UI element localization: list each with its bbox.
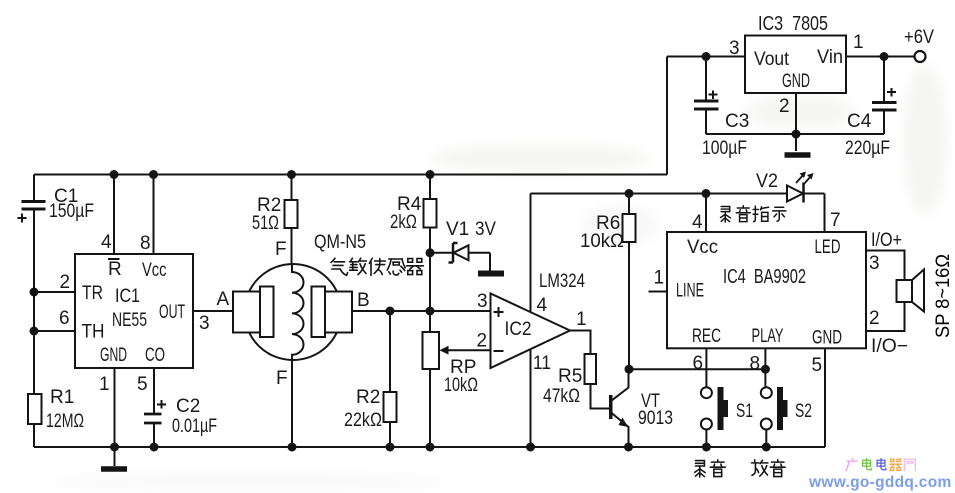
ground symbol under IC3 [785,152,811,158]
svg-text:3: 3 [477,291,488,312]
svg-text:GND: GND [100,345,127,366]
wire top supply rail [34,174,667,176]
wire IC4 pin2 to speaker loop [866,302,905,331]
svg-text:47kΩ: 47kΩ [543,386,580,407]
svg-text:S2: S2 [795,401,812,422]
svg-text:LINE: LINE [676,281,704,302]
speaker SP [897,270,925,312]
svg-text:2: 2 [869,308,880,329]
svg-text:220µF: 220µF [845,138,890,159]
watermark site name [846,459,915,471]
svg-text:5: 5 [812,355,823,376]
svg-text:LM324: LM324 [539,271,585,292]
svg-text:6: 6 [59,308,70,329]
switch S1 [701,387,753,447]
svg-text:0.01µF: 0.01µF [172,416,217,437]
svg-text:Vcc: Vcc [687,237,718,258]
transistor VT 9013 [609,369,673,447]
wire IC1 pin2 [34,291,75,293]
wire bottom ground rail [34,446,825,448]
svg-text:1: 1 [576,309,587,330]
wire IC1 pin5 [153,368,155,413]
svg-text:1: 1 [654,268,665,289]
svg-text:2: 2 [60,272,71,293]
svg-text:100µF: 100µF [702,138,747,159]
zener diode V1 3V [430,243,504,274]
svg-text:8: 8 [750,354,761,375]
svg-text:GND: GND [812,328,842,349]
wire C3-C4 bottom link [706,133,884,135]
gas sensor QM-N5 [233,232,366,389]
label (chinese) gas sensor [331,258,423,275]
op IC4 BA9902 box [667,232,866,348]
wire IC1 pin6 [34,330,75,332]
svg-text:9013: 9013 [638,408,673,429]
svg-text:1: 1 [99,374,110,395]
svg-text:3: 3 [869,253,880,274]
wire IC4 pin4 Vcc [705,194,707,233]
wire 7805 pin1 Vin to +6V [846,56,915,58]
svg-text:V1: V1 [446,219,469,240]
resistor R2 51ohm [252,175,298,266]
svg-text:IC2: IC2 [505,319,532,340]
svg-text:CO: CO [145,345,165,366]
svg-text:R2: R2 [356,387,380,408]
svg-text:TR: TR [82,283,103,304]
resistor R1 [28,387,84,432]
wire 7805 pin3 Vout [667,56,745,58]
svg-text:IC4 BA9902: IC4 BA9902 [723,266,806,288]
wire riser to 7805 output [666,57,668,175]
svg-text:Vcc: Vcc [142,260,167,281]
svg-text:22kΩ: 22kΩ [344,410,382,431]
svg-text:1: 1 [853,32,864,53]
svg-text:2kΩ: 2kΩ [390,212,417,233]
svg-text:4: 4 [692,212,703,233]
IC4 labels [654,210,843,376]
op-amp IC2 LM324 [477,271,587,374]
svg-text:C4: C4 [847,111,872,132]
svg-text:7: 7 [830,210,841,231]
resistor R2 22k [344,311,397,447]
IC1 pin labels [59,232,210,395]
svg-text:R: R [108,259,122,280]
wire sensor bottom to ground rail [291,360,293,447]
svg-text:I/O+: I/O+ [871,230,902,251]
svg-text:SP 8~16Ω: SP 8~16Ω [933,254,954,338]
svg-text:10kΩ: 10kΩ [444,375,478,396]
svg-text:6: 6 [693,353,704,374]
switch S2 [761,387,812,447]
wire IC2 pin11 to ground rail [530,349,532,447]
wire 5V distribution line [531,193,788,195]
wire IC2 output pin1 [570,331,591,355]
wire IC4 pin6 REC [705,348,707,387]
svg-text:5: 5 [137,374,148,395]
capacitor C3 [694,57,719,135]
label (chinese) playback [752,460,786,477]
svg-text:Vin: Vin [817,47,843,68]
wire collector to PLAY pin line [629,368,766,370]
svg-text:F: F [276,368,288,389]
svg-text:8: 8 [140,233,151,254]
svg-text:OUT: OUT [159,302,185,323]
wire node B to op-amp [352,310,491,312]
op IC3 7805 regulator box [745,36,846,94]
capacitor C1 [18,202,46,223]
svg-text:I/O−: I/O− [871,336,908,357]
capacitor C4 [872,57,897,135]
svg-text:3: 3 [729,38,740,59]
label (chinese) record [695,460,725,477]
svg-text:F: F [275,239,287,260]
wire IC1 pin8 [153,175,155,255]
wire IC4 pin8 PLAY [764,348,766,387]
heater coil [292,264,304,360]
svg-text:REC: REC [692,326,721,347]
svg-text:12MΩ: 12MΩ [46,411,84,432]
svg-text:3: 3 [199,313,210,334]
svg-text:S1: S1 [736,401,753,422]
label (chinese) recording indicator [720,206,785,222]
wire left rail [33,175,35,448]
svg-text:C2: C2 [176,396,200,417]
resistor R5 [543,354,610,409]
svg-text:PLAY: PLAY [752,326,784,347]
svg-text:2: 2 [477,331,488,352]
svg-text:10kΩ: 10kΩ [580,231,624,252]
wire IC1 pin4 [113,175,115,255]
potentiometer RP [423,332,491,447]
wire IC3 pin2 to ground [795,93,797,151]
ground symbol under IC1 pin1 [101,447,127,469]
svg-text:www.go-gddq.com: www.go-gddq.com [808,474,952,491]
overline of R pin label [108,258,120,260]
capacitor C2 [144,400,166,447]
svg-text:4: 4 [537,295,548,316]
svg-text:11: 11 [533,353,551,374]
svg-text:QM-N5: QM-N5 [314,232,366,253]
svg-text:Vout: Vout [754,49,790,70]
terminal +6V [915,51,926,62]
op IC1 NE555 box [75,254,193,368]
svg-text:R5: R5 [558,366,582,387]
LED V2 [787,174,825,233]
svg-text:B: B [357,290,370,311]
svg-text:GND: GND [782,71,810,92]
wire IC2 pin4 to 5V line [530,194,532,313]
svg-text:IC3 7805: IC3 7805 [758,13,828,35]
svg-text:NE55: NE55 [112,310,147,331]
svg-text:IC1: IC1 [115,286,140,307]
wire IC4 pin3 to speaker loop [866,251,905,281]
wire IC1 pin3 OUT to node A [193,310,233,312]
svg-text:4: 4 [101,232,112,253]
svg-text:2: 2 [779,96,790,117]
svg-text:V2: V2 [756,171,778,192]
svg-text:51Ω: 51Ω [252,213,279,234]
svg-text:3V: 3V [475,219,496,240]
svg-text:150µF: 150µF [49,201,94,222]
svg-text:A: A [217,289,230,310]
svg-text:TH: TH [82,322,105,343]
svg-text:R1: R1 [50,387,74,408]
wire IC4 pin5 GND [824,348,826,447]
wire IC4 pin1 LINE stub [649,291,668,293]
wire IC1 pin1 to ground rail [114,368,116,447]
resistor R6 [580,194,636,370]
svg-text:+6V: +6V [904,27,934,48]
resistor R4 [390,175,437,333]
svg-text:C3: C3 [725,111,749,132]
svg-text:LED: LED [815,237,841,258]
